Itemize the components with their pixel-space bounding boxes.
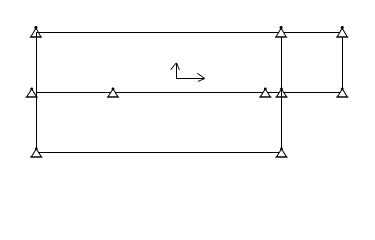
support triangle bottom-right node: [275, 148, 287, 157]
wire right column x=342.5: [342, 33, 344, 93]
wire center column x=281.5 (drawn over middle support): [281, 33, 283, 153]
support triangle top-left node (under lines): [30, 26, 42, 37]
axis Y arrowhead: [171, 63, 180, 70]
support triangle top-right node: [336, 26, 348, 37]
support triangle middle-right node: [336, 88, 348, 97]
support triangle top-middle node: [275, 26, 287, 37]
wire bottom beam y=152.5: [37, 152, 282, 154]
wire top beam y=32.5: [37, 32, 343, 34]
axes origin symbol: [171, 63, 205, 82]
support triangle middle node x=265: [259, 88, 271, 97]
wire middle beam y=92.5: [37, 92, 343, 94]
axis X arrowhead: [197, 73, 204, 81]
support triangle middle node x=281.5: [275, 88, 287, 97]
support triangle bottom-left node: [30, 148, 42, 157]
support triangle middle node x=113: [107, 88, 119, 97]
wire left column x=36.5: [36, 33, 38, 153]
axis X shaft: [176, 78, 205, 80]
support triangle middle-left offset node: [26, 88, 38, 97]
axis Y shaft: [176, 63, 178, 79]
